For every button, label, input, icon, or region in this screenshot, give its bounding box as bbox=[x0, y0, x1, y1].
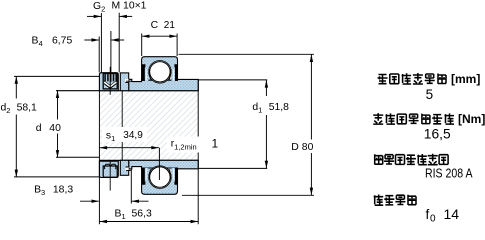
svg-text:56,3: 56,3 bbox=[132, 208, 152, 219]
B1 arrows bbox=[100, 220, 108, 223]
seal inner edge strokes top bbox=[149, 69, 171, 80]
svg-text:RIS 208 A: RIS 208 A bbox=[425, 166, 473, 181]
screw hole bottom bbox=[103, 166, 117, 177]
d dim bbox=[57, 91, 59, 158]
label d2 58,1 bbox=[0, 99, 35, 115]
eccentric collar bottom bbox=[99, 161, 118, 177]
ball bottom bbox=[150, 167, 170, 187]
svg-text:16,5: 16,5 bbox=[424, 127, 451, 142]
label 1: hex key size [mm] bbox=[378, 72, 481, 86]
outer ring bottom bbox=[142, 168, 178, 194]
svg-text:40: 40 bbox=[49, 123, 61, 134]
d1 arrows bbox=[265, 80, 268, 88]
G2 arrows bbox=[94, 15, 102, 18]
svg-text:58,1: 58,1 bbox=[17, 102, 37, 113]
screw centerline bottom bbox=[109, 160, 111, 190]
step block bottom bbox=[120, 160, 128, 175]
outer ring top bbox=[142, 57, 178, 80]
label D 80 bbox=[288, 140, 316, 154]
B3 dim bbox=[80, 200, 99, 202]
ball cavity top bbox=[149, 61, 172, 84]
label 2: tightening torque [Nm] bbox=[373, 112, 485, 126]
D arrows bbox=[310, 55, 313, 63]
svg-text:34,9: 34,9 bbox=[123, 130, 143, 141]
ball cavity bottom bbox=[149, 166, 172, 189]
seal right top bbox=[172, 64, 178, 81]
step block top bbox=[120, 73, 128, 91]
collar top bbox=[99, 73, 118, 91]
shaft section hatch bbox=[99, 91, 198, 161]
d arrows bbox=[56, 91, 59, 99]
svg-text:80: 80 bbox=[302, 142, 314, 153]
text labels (dimension texts) bbox=[0, 1, 316, 221]
B3 arrows bbox=[92, 200, 100, 203]
wire: shaft bottom surface line (d extension) bbox=[56, 156, 99, 158]
d2 dim bbox=[14, 75, 99, 77]
svg-text:[Nm]: [Nm] bbox=[458, 112, 485, 126]
seal left top bbox=[142, 64, 148, 81]
svg-text:5: 5 bbox=[426, 87, 434, 102]
ball top bbox=[150, 62, 170, 82]
s1 arrows bbox=[100, 146, 108, 149]
svg-text:0: 0 bbox=[430, 214, 436, 225]
arrowheads bbox=[15, 15, 313, 224]
svg-text:d: d bbox=[36, 123, 42, 134]
label d 40 bbox=[34, 120, 63, 134]
svg-text:51,8: 51,8 bbox=[269, 102, 289, 113]
wire: inner line in shaft bbox=[121, 91, 123, 161]
svg-text:D: D bbox=[291, 142, 299, 153]
B4 arrows bbox=[92, 38, 100, 41]
inner ring band top bbox=[129, 79, 199, 90]
G2 dim tails bbox=[87, 15, 101, 17]
B4 dim tails bbox=[84, 39, 98, 41]
d2 arrows bbox=[15, 76, 18, 84]
B1 dim bbox=[98, 91, 100, 225]
groove notch top bbox=[125, 79, 128, 83]
svg-text:14: 14 bbox=[444, 207, 460, 222]
svg-text:18,3: 18,3 bbox=[53, 185, 73, 196]
label s1 34,9 bbox=[102, 127, 147, 142]
svg-text:C: C bbox=[151, 20, 159, 31]
svg-text:1: 1 bbox=[212, 136, 219, 150]
svg-text:6,75: 6,75 bbox=[52, 36, 72, 47]
wire: bottom sleeve bore line bbox=[99, 159, 198, 161]
seal left bottom bbox=[142, 168, 148, 185]
seal right bottom bbox=[172, 168, 178, 185]
inner ring band bottom bbox=[129, 160, 199, 169]
wire: shaft top surface line bbox=[56, 90, 198, 92]
C arrows bbox=[142, 35, 150, 38]
label 3: suitable rubber seating ring bbox=[375, 154, 448, 165]
label 4: calculation factor (4 CJK chars) bbox=[374, 195, 416, 206]
svg-text:M 10×1: M 10×1 bbox=[112, 1, 147, 12]
svg-text:21: 21 bbox=[164, 20, 176, 31]
ext lines above collar bbox=[98, 37, 100, 73]
svg-text:[mm]: [mm] bbox=[451, 72, 480, 86]
D dim bbox=[179, 53, 315, 55]
label d1 51,8 bbox=[249, 96, 292, 115]
grub screw M10x1 bbox=[103, 74, 117, 89]
bearing centerline through bottom ball bbox=[158, 148, 160, 180]
C dim bbox=[141, 34, 143, 57]
svg-text:f: f bbox=[426, 207, 430, 222]
d1 dim bbox=[198, 79, 267, 81]
screw centerline bbox=[109, 67, 111, 95]
s1 dim bbox=[99, 147, 159, 149]
label r1,2min with value 1 bbox=[167, 137, 218, 153]
seal inner edge strokes bottom bbox=[149, 169, 171, 180]
groove notch bottom bbox=[125, 167, 128, 171]
